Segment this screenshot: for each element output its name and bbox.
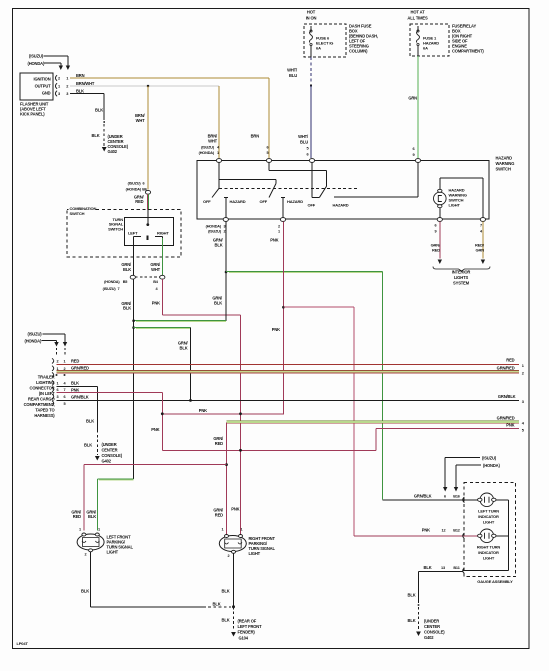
svg-text:3: 3 [224, 224, 226, 228]
svg-text:KICK PANEL): KICK PANEL) [20, 112, 45, 117]
svg-text:BLK: BLK [76, 89, 84, 94]
svg-text:LIGHT: LIGHT [449, 203, 461, 208]
svg-text:6: 6 [64, 395, 66, 399]
svg-text:12: 12 [442, 529, 446, 533]
svg-text:6: 6 [267, 145, 269, 149]
svg-text:SWITCH: SWITCH [70, 211, 85, 216]
svg-text:1: 1 [217, 151, 219, 155]
wire GRN/RED bus [57, 370, 520, 372]
fuse 1 symbol [417, 26, 419, 31]
svg-text:WHT: WHT [136, 118, 146, 123]
svg-text:INDICATOR: INDICATOR [478, 550, 499, 555]
svg-text:7: 7 [64, 388, 66, 392]
fuse 6 symbol [310, 26, 312, 31]
svg-text:BLU: BLU [300, 140, 308, 145]
svg-text:BLK: BLK [408, 618, 416, 623]
hazard switch bottom pin A (GRN/BLK) [223, 218, 228, 222]
svg-text:BLK: BLK [408, 593, 416, 598]
hazard switch pole 1 [218, 162, 220, 188]
trailer GRN/BLK branch (green then black) [132, 326, 135, 329]
svg-text:BLK: BLK [95, 108, 103, 113]
PNK branch to right turn indicator [283, 306, 354, 308]
flasher pin brackets and numbers [55, 75, 57, 81]
svg-text:CENTER: CENTER [102, 448, 118, 453]
svg-text:LEFT: LEFT [128, 230, 138, 235]
svg-text:COLUMN): COLUMN) [349, 49, 368, 54]
wire RED/GRN to interior lights [482, 222, 484, 259]
svg-text:RED: RED [73, 514, 81, 519]
svg-text:BRN: BRN [251, 133, 260, 138]
hazard switch bottom pin B (PNK) [280, 218, 285, 222]
svg-text:G402: G402 [102, 459, 112, 464]
svg-text:6: 6 [143, 181, 145, 185]
svg-text:BRN/WHT: BRN/WHT [76, 81, 95, 86]
svg-text:PNK: PNK [272, 327, 280, 332]
svg-text:B16: B16 [453, 495, 460, 499]
svg-text:GRN/RED: GRN/RED [71, 366, 89, 371]
svg-text:CONSOLE): CONSOLE) [102, 453, 123, 458]
flasher unit box [20, 73, 53, 100]
wire GRN/BLK corner to left light [97, 478, 133, 480]
left turn indicator light [480, 493, 494, 507]
svg-text:LEFT FRONT: LEFT FRONT [238, 624, 263, 629]
svg-text:(HONDA): (HONDA) [104, 280, 120, 284]
svg-text:GRN/BLK: GRN/BLK [71, 394, 89, 399]
svg-text:(IN LEFT: (IN LEFT [39, 391, 55, 396]
svg-text:(UNDER: (UNDER [102, 442, 117, 447]
svg-text:G402: G402 [108, 149, 118, 154]
svg-text:BRN: BRN [76, 73, 85, 78]
wire RED bus [57, 363, 520, 365]
svg-text:SWITCH: SWITCH [496, 167, 511, 172]
svg-text:PNK: PNK [152, 301, 160, 306]
wire PNK trailer row [57, 392, 163, 394]
svg-text:RED: RED [135, 199, 143, 204]
svg-text:G402: G402 [424, 635, 434, 640]
left light ground wire BLK [90, 552, 92, 607]
svg-text:(HONDA): (HONDA) [28, 61, 45, 66]
wire GRN/RED vertical to front lights [226, 422, 228, 535]
svg-text:GRN/BLK: GRN/BLK [414, 494, 432, 499]
hazard switch pole 3 feed jog from pin 2 [269, 170, 326, 172]
hazard switch pole 3 [311, 162, 313, 197]
svg-text:2: 2 [228, 554, 230, 558]
wire PNK from hazard pin B down [282, 222, 284, 415]
svg-text:7: 7 [480, 223, 482, 227]
svg-text:BLK: BLK [424, 565, 432, 570]
svg-text:PNK: PNK [71, 387, 79, 392]
hazard switch pole 2 [269, 184, 276, 198]
svg-text:BLK: BLK [86, 418, 94, 423]
svg-text:RIGHT: RIGHT [157, 230, 169, 235]
svg-text:RED: RED [71, 358, 79, 363]
hazard warning switch light bulb [434, 192, 447, 205]
left-turn link (green) to combination switch wire [134, 320, 226, 322]
svg-text:BLK: BLK [222, 618, 230, 623]
hazard warning switch box [197, 161, 489, 220]
wire GRN/RED to interior lights [439, 222, 441, 259]
svg-text:WHT: WHT [208, 138, 218, 143]
svg-text:RED: RED [215, 512, 223, 517]
interior lights system brace and label [433, 267, 490, 272]
svg-text:1: 1 [222, 528, 224, 532]
svg-text:CONNECTOR: CONNECTOR [30, 386, 55, 391]
hazard switch top pin 3 (WHT/BLU) [309, 159, 314, 163]
svg-text:HAZARD: HAZARD [287, 199, 303, 204]
svg-text:CENTER: CENTER [424, 624, 440, 629]
svg-text:GAUGE ASSEMBLY: GAUGE ASSEMBLY [477, 579, 513, 584]
trailer connector rows [52, 358, 54, 363]
svg-text:G104: G104 [239, 636, 249, 641]
svg-text:RED: RED [506, 358, 514, 363]
hazard switch pole 2 feed jog [219, 178, 276, 180]
svg-text:BLK: BLK [123, 306, 131, 311]
svg-text:(UNDER: (UNDER [424, 619, 439, 624]
svg-text:BLK: BLK [92, 133, 100, 138]
svg-text:LIGHT: LIGHT [249, 551, 261, 556]
svg-text:2: 2 [57, 359, 59, 363]
svg-text:IN ON: IN ON [306, 16, 317, 21]
hazard switch top pin 1 (BRN/WHT) [216, 159, 221, 163]
svg-text:HAZARD: HAZARD [230, 199, 246, 204]
svg-text:(ISUZU): (ISUZU) [208, 229, 222, 233]
svg-text:HAZARD: HAZARD [496, 156, 513, 161]
svg-text:HOT AT: HOT AT [411, 10, 426, 15]
svg-text:B11: B11 [453, 566, 459, 570]
svg-text:1: 1 [64, 359, 66, 363]
svg-text:1: 1 [241, 528, 243, 532]
svg-text:SYSTEM: SYSTEM [453, 281, 470, 286]
svg-text:OFF: OFF [203, 199, 211, 204]
svg-text:BLK: BLK [88, 514, 96, 519]
hazard warning switch light loop [439, 207, 441, 220]
svg-text:GRN: GRN [476, 247, 485, 252]
svg-text:BLK: BLK [222, 589, 230, 594]
svg-text:BLK: BLK [84, 443, 92, 448]
svg-text:LIGHT: LIGHT [107, 549, 119, 554]
svg-text:BLK: BLK [215, 242, 223, 247]
svg-text:COMPARTMENT): COMPARTMENT) [452, 49, 484, 54]
svg-text:HARNESS): HARNESS) [34, 413, 55, 418]
svg-text:13: 13 [441, 566, 445, 570]
svg-text:GRN: GRN [408, 96, 417, 101]
svg-text:OFF: OFF [260, 199, 268, 204]
svg-text:BLK: BLK [71, 380, 79, 385]
svg-text:9: 9 [435, 229, 437, 233]
svg-text:SWITCH: SWITCH [108, 226, 123, 231]
gauge common return BLK [508, 536, 510, 571]
svg-text:COMPARTMENT,: COMPARTMENT, [24, 402, 55, 407]
svg-text:GND: GND [42, 90, 51, 95]
svg-text:6: 6 [57, 388, 59, 392]
svg-text:1: 1 [57, 381, 59, 385]
wire GRN/RED (parking) right edge [227, 420, 520, 422]
svg-text:6: 6 [444, 495, 446, 499]
svg-text:BLK: BLK [81, 589, 89, 594]
svg-text:(ISUZU): (ISUZU) [128, 181, 142, 185]
svg-text:PNK: PNK [231, 507, 239, 512]
left-turn branch (green) to indicator [225, 271, 228, 274]
svg-text:(HONDA): (HONDA) [126, 187, 142, 191]
svg-text:(HONDA): (HONDA) [25, 338, 42, 343]
right turn indicator light [480, 529, 494, 543]
svg-text:INDICATOR: INDICATOR [478, 514, 499, 519]
svg-text:CONSOLE): CONSOLE) [424, 630, 445, 635]
svg-text:GRN/RED: GRN/RED [497, 416, 515, 421]
wire BRN/WHT branch to combination switch [147, 86, 149, 190]
svg-text:LIGHT: LIGHT [483, 520, 495, 525]
svg-text:(REAR OF: (REAR OF [238, 619, 257, 624]
svg-text:(ISUZU): (ISUZU) [28, 331, 43, 336]
svg-text:5: 5 [64, 402, 66, 406]
svg-text:OUTPUT: OUTPUT [35, 83, 52, 88]
svg-text:REAR CARGO: REAR CARGO [28, 397, 55, 402]
svg-text:BLK: BLK [214, 300, 222, 305]
svg-text:6: 6 [435, 223, 437, 227]
hazard switch top pin 4 (GRN) [415, 159, 420, 163]
svg-text:(ISUZU): (ISUZU) [29, 53, 44, 58]
svg-text:2: 2 [278, 224, 280, 228]
hazard switch bottom pins C,D (illumination) [437, 218, 442, 222]
svg-text:INTERIOR: INTERIOR [452, 270, 471, 275]
wire BLK from gauge to ground G402 [418, 572, 420, 604]
svg-text:1: 1 [98, 528, 100, 532]
svg-text:HAZARD: HAZARD [333, 203, 349, 208]
svg-text:RED: RED [432, 247, 440, 252]
svg-text:1: 1 [278, 229, 280, 233]
svg-text:ALL TIMES: ALL TIMES [407, 16, 428, 21]
svg-text:BLU: BLU [289, 73, 297, 78]
svg-text:3: 3 [57, 395, 59, 399]
svg-text:1: 1 [79, 528, 81, 532]
wire GRN/RED branch to left light [84, 464, 227, 466]
svg-text:LIGHTS: LIGHTS [454, 275, 469, 280]
svg-text:B5: B5 [123, 280, 128, 284]
svg-text:2: 2 [85, 553, 87, 557]
svg-text:(ISUZU): (ISUZU) [103, 287, 117, 291]
svg-text:5: 5 [267, 151, 269, 155]
svg-text:BLK: BLK [123, 267, 131, 272]
svg-text:LEFT TURN: LEFT TURN [478, 509, 499, 514]
wire GRN from fuse 1 [417, 56, 419, 158]
right light ground wire BLK to G104 [233, 553, 235, 607]
svg-text:HOT: HOT [307, 10, 316, 15]
svg-text:(HONDA): (HONDA) [206, 224, 222, 228]
svg-text:GRN/BLK: GRN/BLK [498, 394, 516, 399]
svg-text:7: 7 [118, 287, 120, 291]
turn signal switch box [125, 217, 174, 245]
svg-text:RED: RED [215, 441, 223, 446]
connector C (HONDA B5/B4, ISUZU 7/4) [135, 276, 160, 278]
svg-text:PNK: PNK [199, 408, 207, 413]
svg-text:IGNITION: IGNITION [34, 76, 51, 81]
svg-text:WHT/: WHT/ [287, 68, 298, 73]
svg-text:BLK: BLK [180, 345, 188, 350]
wire BLK from trailer to ground G402 [57, 386, 98, 388]
svg-text:WHT: WHT [151, 267, 161, 272]
svg-text:B12: B12 [453, 529, 460, 533]
svg-text:LIGHTING: LIGHTING [36, 380, 54, 385]
turn signal switch internals [147, 217, 149, 224]
svg-text:BLK: BLK [213, 601, 221, 606]
svg-text:GRN/RED: GRN/RED [497, 365, 515, 370]
svg-text:LP04T: LP04T [17, 641, 29, 646]
svg-text:PNK: PNK [151, 427, 159, 432]
svg-text:RIGHT TURN: RIGHT TURN [477, 545, 500, 550]
svg-text:OFF: OFF [308, 203, 316, 208]
svg-text:(HONDA): (HONDA) [483, 463, 500, 468]
svg-text:PNK: PNK [270, 238, 278, 243]
wire PNK bus to right edge [162, 449, 376, 451]
svg-text:(ISUZU): (ISUZU) [201, 145, 215, 149]
svg-text:(ISUZU): (ISUZU) [482, 455, 497, 460]
svg-text:6A: 6A [423, 46, 428, 51]
combination switch dashed box [67, 210, 181, 258]
svg-text:LIGHT: LIGHT [483, 556, 495, 561]
svg-text:WHT/: WHT/ [298, 134, 309, 139]
svg-text:WARNING: WARNING [496, 161, 515, 166]
svg-text:TAPED TO: TAPED TO [35, 408, 55, 413]
svg-text:6A: 6A [316, 46, 321, 51]
svg-text:2: 2 [224, 229, 226, 233]
wire GRN/BLK bus [57, 399, 520, 401]
gauge assembly dashed box [464, 483, 516, 577]
svg-text:PNK: PNK [422, 528, 430, 533]
switch gang dashed link [219, 188, 359, 190]
hazard switch pole 3 hazard contact to GRN pin 4 [334, 196, 418, 198]
hazard switch top pin 2 (BRN) [266, 159, 271, 163]
svg-text:FENDER): FENDER) [238, 630, 256, 635]
svg-text:(HONDA): (HONDA) [199, 151, 215, 155]
